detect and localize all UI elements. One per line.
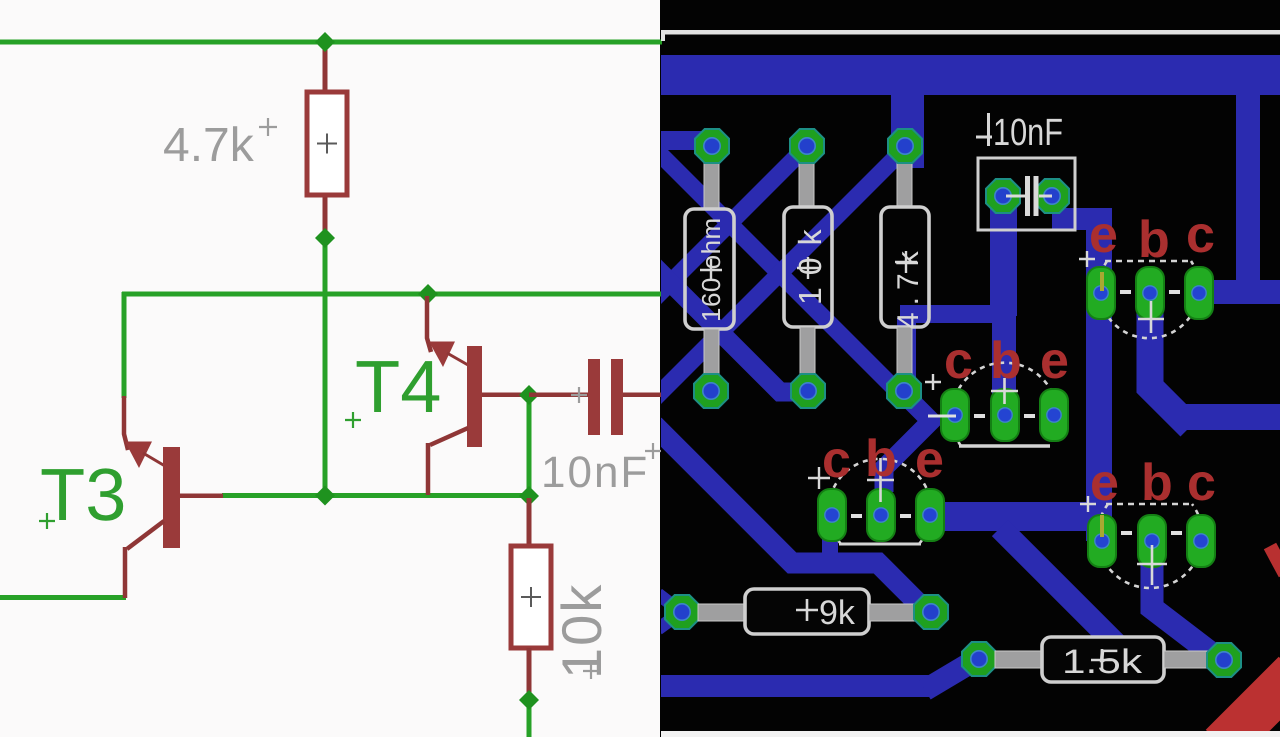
transistor PT3 pad c bbox=[1185, 267, 1213, 319]
trace to R1 top pad bbox=[661, 131, 713, 150]
trace cap right L bbox=[1052, 208, 1112, 230]
capacitor PC1 left pad bbox=[986, 179, 1020, 213]
trace V to mid transistor b bbox=[884, 392, 931, 492]
transistor T3 emitter diag bbox=[143, 453, 165, 466]
label 4.7k cross bbox=[259, 118, 277, 136]
wire left vertical green bbox=[122, 292, 127, 398]
wire center vertical green upper bbox=[323, 239, 328, 497]
resistor R2 origin cross bbox=[521, 587, 541, 607]
transistor PT3 b cross bbox=[1138, 301, 1164, 333]
transistor PT2 b cross bbox=[867, 458, 894, 502]
resistor PR3 bottom pad bbox=[887, 374, 921, 408]
transistor T3 collector wire bbox=[180, 494, 223, 499]
resistor R1 bottom lead wire bbox=[323, 194, 328, 240]
transistor PT1 bottom line bbox=[959, 444, 1050, 448]
transistor PT1 top (c b e) outline arc bbox=[952, 363, 1058, 446]
resistor PR4 body bbox=[745, 589, 869, 634]
resistor PR4 9k left pad bbox=[665, 595, 699, 629]
capacitor C1 plate2 bbox=[611, 359, 623, 435]
svg-text:c: c bbox=[944, 332, 973, 390]
trace cap right vertical bbox=[1086, 208, 1112, 541]
junction mid cap column bbox=[519, 486, 539, 506]
transistor PT2 pad c bbox=[818, 489, 846, 541]
trace red corner stripe bbox=[1222, 673, 1280, 737]
svg-text:10nF: 10nF bbox=[993, 112, 1063, 154]
capacitor PC1 right pad bbox=[1035, 179, 1069, 213]
capacitor PC1 symbol line bbox=[1006, 195, 1052, 198]
resistor PR4 cross bbox=[796, 599, 818, 621]
svg-text:10k: 10k bbox=[550, 583, 613, 679]
resistor PR3 body bbox=[881, 207, 929, 327]
label 10nF cross bbox=[645, 443, 661, 459]
resistor PR2 top pad bbox=[790, 129, 824, 163]
junction T4 base bbox=[418, 284, 438, 304]
board bottom white strip bbox=[660, 731, 1280, 737]
wire top rail bbox=[0, 40, 662, 45]
label 10k cross bbox=[583, 663, 599, 679]
transistor T3 emitter wire upper bbox=[124, 396, 128, 450]
resistor R1 4.7k body bbox=[307, 92, 347, 195]
transistor PT4 b cross bbox=[1137, 545, 1167, 585]
wire bottom-left emitter rail bbox=[0, 595, 126, 600]
trace wide vertical lower bbox=[992, 305, 1016, 400]
trace topright-b horizontal bbox=[1180, 404, 1280, 430]
transistor PT3 top line bbox=[1105, 260, 1193, 263]
trace bottom band bbox=[661, 675, 931, 697]
junction mid rail bbox=[315, 486, 335, 506]
resistor PR1 160ohm top lead bbox=[704, 158, 719, 210]
trace band2 mid-e to botright-e bbox=[929, 502, 1099, 531]
resistor PR2 10k top lead bbox=[799, 158, 814, 208]
transistor PT4 pad e bbox=[1088, 515, 1116, 567]
transistor T4 collector wire bbox=[482, 393, 529, 398]
trace wide vertical cap-down bbox=[990, 196, 1017, 316]
resistor PR2 bottom pad bbox=[791, 374, 825, 408]
svg-text:c: c bbox=[1187, 454, 1216, 512]
trace band right vertical bbox=[1236, 91, 1260, 291]
label T4 cross bbox=[345, 412, 361, 428]
wire bottom green bbox=[527, 700, 532, 737]
trace red diag right edge bbox=[1270, 546, 1280, 574]
svg-text:T3: T3 bbox=[40, 453, 126, 536]
svg-text:c: c bbox=[822, 431, 851, 489]
resistor PR4 right pad bbox=[914, 595, 948, 629]
label T3 cross bbox=[39, 513, 55, 529]
transistor T4 emitter diag bbox=[447, 353, 468, 365]
transistor PT3 pad e bbox=[1087, 267, 1115, 319]
svg-text:e: e bbox=[1089, 206, 1118, 264]
trace 9k left pad stub lower bbox=[658, 613, 680, 629]
transistor T4 emitter arrow bbox=[429, 342, 455, 368]
svg-text:4.7k: 4.7k bbox=[892, 244, 925, 329]
transistor PT4 pad b bbox=[1138, 515, 1166, 567]
transistor T3 lower wire bbox=[123, 547, 128, 598]
trace botright-b down bbox=[1152, 545, 1220, 660]
resistor PR5 cross bbox=[1091, 649, 1113, 671]
junction cap left bbox=[519, 385, 539, 405]
trace diagonal X left edge to R3 bottom pad bbox=[654, 148, 900, 394]
transistor PT4 origin cross bbox=[1080, 496, 1096, 512]
transistor T3 lower diag bbox=[127, 521, 164, 549]
transistor PT1 dashes bbox=[974, 414, 1035, 418]
wire collector rail y495 bbox=[222, 493, 530, 498]
svg-text:e: e bbox=[1090, 454, 1119, 512]
junction bottom bbox=[519, 690, 539, 710]
transistor PT2 origin cross bbox=[808, 467, 830, 489]
capacitor C1 right wire bbox=[623, 393, 662, 398]
transistor PT4 dashes bbox=[1121, 531, 1182, 535]
resistor PR3 4.7k top lead bbox=[897, 158, 912, 208]
junction below R1 bbox=[315, 228, 335, 248]
resistor PR4 left lead bbox=[698, 604, 745, 621]
svg-text:b: b bbox=[990, 332, 1022, 390]
resistor PR2 body bbox=[784, 207, 832, 327]
trace diagonal W to R2 bottom pad bbox=[654, 266, 802, 392]
trace bottom band diag to 1.5k left pad bbox=[925, 659, 977, 690]
capacitor C1 left wire bbox=[529, 393, 588, 398]
transistor PT1 marker line bbox=[928, 415, 956, 418]
transistor T4 lower wire bbox=[426, 443, 431, 495]
transistor PT1 pad e bbox=[1040, 389, 1068, 441]
junction top bbox=[315, 32, 335, 52]
transistor PT3 dashes bbox=[1120, 290, 1180, 294]
resistor PR3 cross bbox=[895, 251, 917, 273]
transistor PT4 yellow mark bbox=[1100, 515, 1104, 537]
resistor PR1 cross bbox=[700, 259, 722, 281]
capacitor PC1 symbol bars bbox=[1025, 176, 1030, 216]
transistor PT1 origin cross bbox=[925, 374, 941, 390]
resistor PR5 1.5k left pad bbox=[962, 642, 996, 676]
transistor PT2 mid (c b e) outline arc bbox=[829, 459, 932, 544]
wire cap-down green bbox=[527, 396, 532, 497]
capacitor PC1 outline bbox=[978, 158, 1075, 230]
board outline left stub bbox=[661, 30, 665, 41]
trace diagonal V to 9k right pad bbox=[654, 425, 927, 612]
resistor PR5 left lead bbox=[995, 651, 1042, 668]
trace H1 horizontal bbox=[900, 305, 1016, 323]
resistor PR2 bottom lead bbox=[800, 327, 815, 375]
transistor PT4 top line bbox=[1106, 503, 1194, 506]
transistor PT2 pad e bbox=[916, 489, 944, 541]
capacitor C1 plate1 bbox=[588, 359, 600, 435]
transistor T4 lower diag bbox=[430, 428, 468, 445]
resistor R2 bottom wire bbox=[527, 648, 532, 700]
resistor PR3 top pad bbox=[888, 129, 922, 163]
board outline white line bbox=[661, 30, 1280, 35]
svg-text:c: c bbox=[1186, 206, 1215, 264]
svg-text:b: b bbox=[1138, 211, 1170, 269]
svg-text:e: e bbox=[1040, 332, 1069, 390]
capacitor PC1 label cross bbox=[976, 113, 992, 146]
resistor R2 top wire bbox=[527, 498, 532, 548]
trace diagonal Z from R3 top pad bbox=[654, 145, 908, 399]
transistor T4 emitter wire upper bbox=[427, 296, 431, 352]
trace R3pad down link bbox=[897, 318, 916, 393]
svg-text:T4: T4 bbox=[355, 345, 441, 428]
resistor R1 top lead wire bbox=[323, 42, 328, 92]
resistor PR5 right pad bbox=[1207, 643, 1241, 677]
transistor PT4 botright (e b c) outline arc bbox=[1098, 504, 1203, 588]
capacitor C1 pin cross bbox=[571, 387, 587, 403]
transistor T4 base bar bbox=[467, 346, 482, 447]
svg-text:10nF: 10nF bbox=[541, 448, 649, 497]
transistor PT1 b cross bbox=[991, 378, 1018, 404]
transistor T3 base bar bbox=[163, 447, 180, 548]
trace diagonal Y from R2 top pad bbox=[654, 143, 810, 299]
transistor T3 emitter arrow bbox=[125, 442, 152, 469]
trace topright-b route bbox=[1150, 310, 1190, 427]
resistor PR1 top pad bbox=[695, 129, 729, 163]
resistor PR2 cross bbox=[797, 257, 819, 279]
resistor R1 origin cross bbox=[317, 134, 337, 154]
transistor PT3 origin cross bbox=[1079, 251, 1095, 267]
trace mid-c stub bbox=[822, 528, 838, 562]
svg-text:b: b bbox=[1141, 454, 1173, 512]
trace topright-c band bbox=[1199, 280, 1280, 304]
resistor PR1 body bbox=[685, 209, 734, 329]
trace top band bbox=[661, 55, 1280, 95]
transistor PT1 pad b bbox=[991, 389, 1019, 441]
svg-text:b: b bbox=[865, 430, 897, 488]
transistor PT2 bottom line bbox=[839, 543, 921, 546]
resistor PR3 bottom lead bbox=[897, 327, 912, 375]
trace R3 vertical bbox=[891, 91, 924, 168]
trace 9k left pad stub upper bbox=[658, 594, 680, 611]
trace under right transistor diag bbox=[1000, 528, 1122, 650]
pcb background bbox=[660, 0, 1280, 737]
resistor PR1 bottom lead bbox=[704, 329, 719, 376]
svg-text:e: e bbox=[915, 431, 944, 489]
resistor R2 10k body bbox=[511, 546, 551, 648]
wire mid rail y294 bbox=[122, 292, 662, 297]
transistor PT4 pad c bbox=[1187, 515, 1215, 567]
resistor PR1 bottom pad bbox=[694, 374, 728, 408]
trace into top transistor b pad bbox=[997, 380, 1012, 415]
svg-text:9k: 9k bbox=[819, 594, 856, 632]
transistor PT3 topright (e b c) outline arc bbox=[1099, 261, 1199, 338]
transistor PT1 pad c bbox=[941, 389, 969, 441]
transistor PT2 pad b bbox=[867, 489, 895, 541]
svg-text:10k: 10k bbox=[792, 217, 828, 305]
transistor PT3 yellow mark bbox=[1100, 272, 1104, 291]
resistor PR5 right lead bbox=[1164, 651, 1212, 668]
resistor PR4 right lead bbox=[869, 604, 917, 621]
svg-text:4.7k: 4.7k bbox=[163, 119, 255, 172]
schematic background bbox=[0, 0, 662, 737]
transistor PT3 pad b bbox=[1136, 267, 1164, 319]
resistor PR5 body bbox=[1042, 637, 1164, 682]
transistor PT2 dashes bbox=[851, 514, 911, 518]
